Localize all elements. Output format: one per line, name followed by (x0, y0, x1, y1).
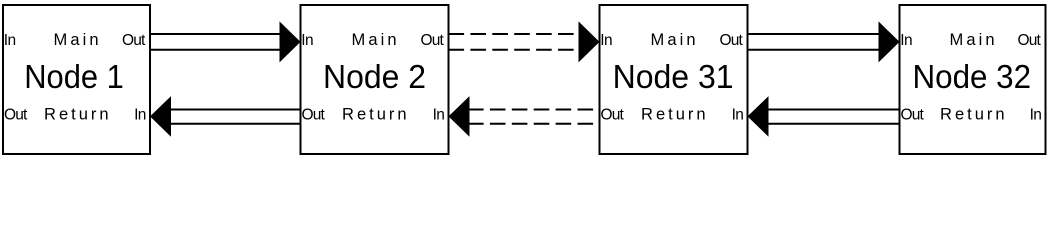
wire Return: Node 31 Out to Node 2 In (bottom, dashed double line, arrow left) (449, 96, 600, 137)
wire Main: Node 1 Out to Node 2 In (top, solid double line, arrow right) (150, 21, 301, 62)
svg-text:In: In (301, 32, 313, 49)
svg-text:In: In (134, 107, 146, 124)
svg-text:Node 31: Node 31 (613, 58, 734, 95)
svg-text:Node 32: Node 32 (913, 58, 1032, 95)
svg-text:Out: Out (1018, 32, 1042, 49)
node Node 32 box (900, 5, 1046, 154)
svg-text:In: In (900, 32, 912, 49)
wire Main: Node 2 Out to Node 31 In (top, dashed double line, arrow right) (449, 21, 600, 62)
svg-text:Main: Main (651, 31, 696, 49)
svg-text:Out: Out (901, 107, 925, 124)
arrowhead (748, 96, 769, 137)
wire Return: Node 2 Out to Node 1 In (bottom, solid double line, arrow left) (150, 96, 301, 137)
node Node 1 box (3, 5, 150, 154)
svg-text:Main: Main (352, 31, 397, 49)
svg-text:In: In (600, 32, 612, 49)
svg-text:Out: Out (601, 107, 625, 124)
svg-text:In: In (732, 107, 744, 124)
node Node 2 box (301, 5, 449, 154)
svg-text:Out: Out (302, 107, 326, 124)
svg-text:Out: Out (122, 32, 146, 49)
svg-text:Out: Out (4, 107, 28, 124)
arrowhead (150, 96, 171, 137)
svg-text:Main: Main (54, 31, 99, 49)
svg-text:In: In (4, 32, 16, 49)
svg-text:Out: Out (720, 32, 744, 49)
svg-text:In: In (433, 107, 445, 124)
svg-text:In: In (1030, 107, 1042, 124)
svg-text:Main: Main (950, 31, 995, 49)
arrowhead (579, 21, 600, 62)
svg-text:Node 2: Node 2 (323, 58, 426, 95)
svg-text:Node 1: Node 1 (24, 58, 124, 95)
arrowhead (280, 21, 301, 62)
svg-text:Out: Out (421, 32, 445, 49)
wire Main: Node 31 Out to Node 32 In (top, solid double line, arrow right) (748, 21, 900, 62)
node Node 31 box (600, 5, 748, 154)
wire Return: Node 32 Out to Node 31 In (bottom, solid double line, arrow left) (748, 96, 900, 137)
arrowhead (449, 96, 470, 137)
arrowhead (879, 21, 900, 62)
